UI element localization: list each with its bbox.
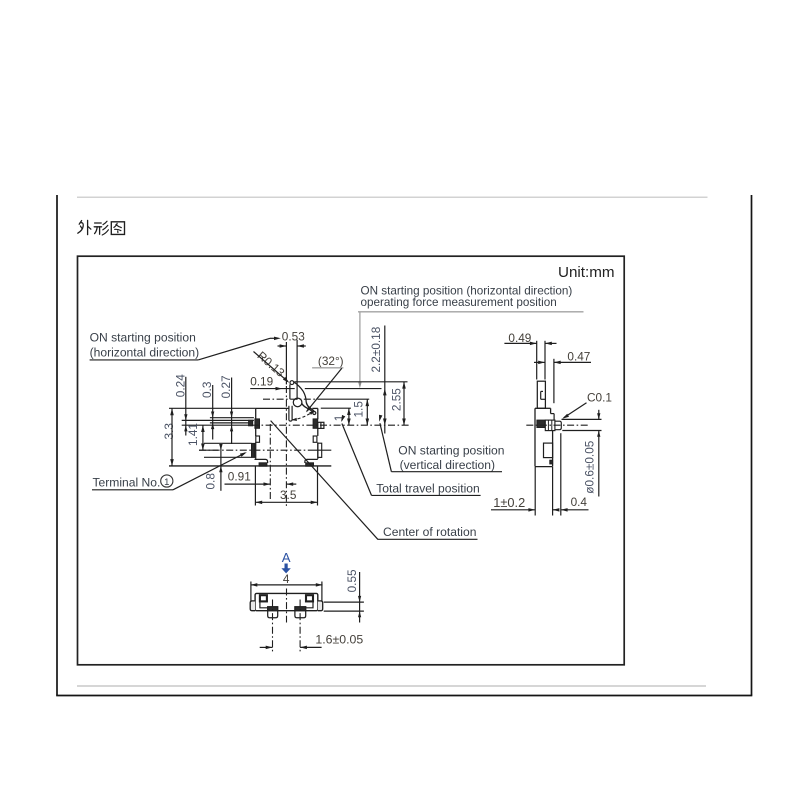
svg-text:(vertical direction): (vertical direction) xyxy=(400,458,495,472)
svg-text:0.19: 0.19 xyxy=(250,374,273,388)
svg-text:0.53: 0.53 xyxy=(282,329,305,343)
svg-text:ON starting position: ON starting position xyxy=(398,443,504,457)
svg-text:Terminal No.: Terminal No. xyxy=(93,475,161,489)
svg-text:ON starting position: ON starting position xyxy=(90,330,196,344)
svg-text:ø0.6±0.05: ø0.6±0.05 xyxy=(582,440,596,493)
svg-text:Center of rotation: Center of rotation xyxy=(383,525,476,539)
svg-text:operating force measurement po: operating force measurement position xyxy=(361,296,557,309)
svg-text:1±0.2: 1±0.2 xyxy=(493,495,525,510)
svg-text:1: 1 xyxy=(164,477,169,488)
svg-text:0.3: 0.3 xyxy=(200,381,214,398)
svg-text:0.47: 0.47 xyxy=(567,350,590,364)
svg-text:A: A xyxy=(282,550,291,565)
svg-text:0.4: 0.4 xyxy=(571,495,588,509)
svg-text:3.5: 3.5 xyxy=(280,488,297,502)
svg-text:2.2±0.18: 2.2±0.18 xyxy=(369,326,383,372)
svg-text:1.5: 1.5 xyxy=(351,401,365,418)
svg-text:0.91: 0.91 xyxy=(228,469,251,483)
svg-text:1.6±0.05: 1.6±0.05 xyxy=(315,632,363,646)
svg-text:Unit:mm: Unit:mm xyxy=(558,264,615,281)
svg-text:0.55: 0.55 xyxy=(345,569,359,592)
svg-text:(horizontal direction): (horizontal direction) xyxy=(90,345,200,359)
svg-text:4: 4 xyxy=(283,572,290,586)
svg-text:2.55: 2.55 xyxy=(389,388,403,411)
svg-text:0.8: 0.8 xyxy=(203,473,217,490)
svg-text:1.41: 1.41 xyxy=(186,423,200,446)
svg-text:C0.1: C0.1 xyxy=(587,391,612,405)
svg-text:3.3: 3.3 xyxy=(162,423,176,440)
svg-text:Total travel position: Total travel position xyxy=(376,481,480,495)
svg-text:0.27: 0.27 xyxy=(219,375,233,398)
svg-text:(32°): (32°) xyxy=(318,354,344,368)
